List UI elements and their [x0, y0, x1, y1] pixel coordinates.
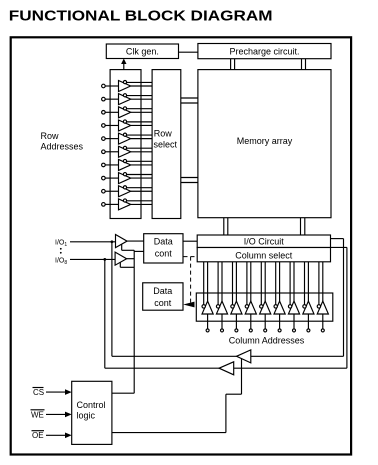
svg-text:FUNCTIONAL BLOCK DIAGRAM: FUNCTIONAL BLOCK DIAGRAM — [9, 8, 273, 25]
wire data path W1 horizontal — [112, 355, 344, 357]
svg-text:Row: Row — [41, 131, 60, 141]
wire row buffer 1 complement output — [125, 81, 152, 83]
svg-text:Data: Data — [154, 237, 173, 247]
wire column buffer 6 true output — [279, 262, 281, 301]
wire column address input 6 — [279, 314, 281, 329]
wire row address input 3 — [105, 111, 118, 113]
wire I/O8 to input buffer — [70, 258, 115, 260]
column address buffer 8 — [303, 301, 314, 314]
row address buffer 9 — [119, 186, 131, 197]
row address input terminal 1 — [102, 84, 106, 88]
arrow OE into control logic — [46, 433, 72, 439]
wire I/O1 to input buffer — [70, 241, 116, 243]
wire column buffer 3 complement output — [232, 262, 234, 305]
row address input terminal 4 — [102, 124, 106, 128]
wire buffer B output jog to data cont — [127, 251, 144, 258]
wire column buffer 1 true output — [207, 262, 209, 301]
row address buffer 6 — [119, 146, 131, 157]
arrow into data cont lower — [183, 302, 194, 308]
memory array box — [198, 70, 331, 218]
wire output bus vertical to I/O1 — [111, 242, 113, 356]
row address input terminal 8 — [102, 176, 106, 180]
output buffer T1 — [237, 350, 251, 363]
svg-text:cont: cont — [155, 248, 173, 258]
svg-text:Row: Row — [154, 129, 173, 139]
svg-text:I/O8: I/O8 — [55, 257, 67, 266]
wire row buffer 10 complement output — [125, 200, 152, 202]
arrow buffer box to clk gen — [121, 59, 126, 70]
pin OE label — [32, 431, 45, 441]
clock generator box — [106, 44, 178, 59]
wire column buffer 3 true output — [235, 262, 237, 301]
column address buffer 2 — [216, 301, 227, 314]
wire row buffer 7 complement output — [125, 160, 152, 162]
wire column address input 8 — [307, 314, 309, 329]
wire W1 right vertical — [343, 239, 345, 357]
svg-text:I/O Circuit: I/O Circuit — [244, 236, 285, 246]
wire row buffer 4 complement output — [125, 121, 152, 123]
wire buffer A to data cont — [127, 240, 144, 242]
wire row buffer 9 complement output — [125, 187, 152, 189]
wire row buffer 6 true output — [131, 151, 152, 153]
column address buffer 9 — [317, 301, 328, 314]
wire column address input 1 — [207, 314, 209, 329]
wire column buffer 9 true output — [322, 262, 324, 301]
svg-text:OE: OE — [32, 431, 44, 440]
wire row address input 4 — [105, 124, 118, 126]
wire column buffer 2 complement output — [217, 262, 219, 305]
svg-text:Memory array: Memory array — [237, 136, 293, 146]
column select box — [197, 248, 330, 262]
wire row buffer 1 true output — [131, 85, 152, 87]
ellipsis dots between I/O pins — [60, 248, 62, 254]
wire row address input 2 — [105, 98, 118, 100]
column address input terminal 6 — [278, 329, 281, 332]
row select box — [152, 70, 181, 219]
wire data cont to I/O circuit — [183, 240, 197, 242]
wire column buffer 8 complement output — [304, 262, 306, 305]
svg-text:Column select: Column select — [235, 250, 293, 260]
input buffer B (I/O8) — [115, 252, 127, 265]
svg-text:Clk gen.: Clk gen. — [126, 46, 159, 56]
column address buffer 6 — [274, 301, 285, 314]
wire column address input 9 — [322, 314, 324, 329]
row address input terminal 3 — [102, 111, 106, 115]
data cont box lower — [143, 283, 183, 310]
row address input terminal 6 — [102, 150, 106, 154]
wire column buffer 7 true output — [293, 262, 295, 301]
wire row buffer 2 complement output — [125, 95, 152, 97]
wire row address input 5 — [105, 138, 118, 140]
wire row buffer 9 true output — [131, 190, 152, 192]
wire row address input 10 — [105, 203, 118, 205]
pin CS label — [33, 388, 45, 398]
wire data path W2 horizontal — [105, 367, 347, 369]
wire column address input 7 — [293, 314, 295, 329]
wire row buffer 10 true output — [131, 203, 152, 205]
wire row select to memory upper stub — [181, 98, 198, 103]
row address input terminal 9 — [102, 189, 106, 193]
output buffer T2 — [219, 362, 234, 375]
wire W2 right vertical — [346, 247, 348, 368]
wire row buffer 2 true output — [131, 98, 152, 100]
wire column buffer 1 complement output — [203, 262, 205, 305]
wire row buffer 3 complement output — [125, 108, 152, 110]
wire row buffer 8 true output — [131, 177, 152, 179]
row address buffer 5 — [119, 133, 131, 144]
svg-text:WE: WE — [31, 410, 44, 419]
column address input terminal 2 — [221, 329, 224, 332]
row address buffer box — [110, 70, 141, 219]
data cont box upper — [144, 234, 183, 263]
wire row buffer 7 true output — [131, 164, 152, 166]
wire row buffer 5 complement output — [125, 134, 152, 136]
column address input terminal 8 — [307, 329, 310, 332]
wire buffer B enable — [120, 262, 134, 267]
svg-text:select: select — [154, 139, 178, 149]
wire control bus vertical (to control logic) — [133, 250, 135, 393]
column address buffer 4 — [245, 301, 256, 314]
svg-text:Control: Control — [77, 400, 106, 410]
svg-text:Precharge circuit.: Precharge circuit. — [229, 47, 299, 57]
wire column address input 3 — [235, 314, 237, 329]
column address buffer 5 — [260, 301, 271, 314]
column address input terminal 3 — [235, 329, 238, 332]
wire row buffer 4 true output — [131, 124, 152, 126]
wire CS path — [112, 392, 134, 394]
column address input terminal 9 — [321, 329, 324, 332]
junction node I/O8 — [103, 258, 106, 261]
wire column buffer 8 true output — [307, 262, 309, 301]
wire precharge to memory right stub — [302, 59, 306, 70]
wire column buffer 4 true output — [250, 262, 252, 301]
wire row buffer 8 complement output — [125, 173, 152, 175]
row address buffer 1 — [119, 81, 131, 92]
wire precharge to memory left stub — [231, 59, 235, 70]
wire column buffer 4 complement output — [246, 262, 248, 305]
wire output bus vertical to I/O8 — [104, 259, 106, 368]
I/O circuit box — [197, 235, 330, 248]
wire row address input 6 — [105, 151, 118, 153]
wire row address input 1 — [105, 85, 118, 87]
wire column address input 4 — [250, 314, 252, 329]
wire column buffer 5 complement output — [260, 262, 262, 305]
arrow CS into control logic — [46, 389, 72, 395]
wire column address input 2 — [221, 314, 223, 329]
column address input terminal 4 — [249, 329, 252, 332]
wire row buffer 3 true output — [131, 111, 152, 113]
wire memory to I/O circuit left stub — [224, 218, 228, 235]
column address input terminal 5 — [264, 329, 267, 332]
wire clk gen to precharge — [179, 51, 198, 53]
row address buffer 3 — [119, 107, 131, 118]
svg-text:Data: Data — [153, 286, 172, 296]
wire row address input 8 — [105, 177, 118, 179]
control logic box — [72, 381, 112, 444]
wire row address input 9 — [105, 190, 118, 192]
precharge circuit box — [198, 44, 331, 59]
arrow WE into control logic — [46, 412, 72, 418]
column buffer box — [196, 293, 332, 321]
wire W2 to I/O circuit — [331, 246, 347, 248]
column address buffer 7 — [288, 301, 299, 314]
wire memory to I/O circuit right stub — [301, 218, 305, 235]
svg-text:I/O1: I/O1 — [55, 240, 67, 249]
wire column address input 5 — [264, 314, 266, 329]
wire column buffer 5 true output — [264, 262, 266, 301]
column address input terminal 7 — [293, 329, 296, 332]
column address input terminal 1 — [206, 329, 209, 332]
row address input terminal 5 — [102, 137, 106, 141]
wire W1 to I/O circuit — [331, 238, 344, 240]
wire row select to memory lower stub — [181, 178, 198, 183]
row address buffer 4 — [119, 120, 131, 131]
label Row Addresses — [41, 131, 84, 152]
pin WE label — [31, 410, 45, 420]
wire row buffer 5 true output — [131, 138, 152, 140]
wire OE enable path — [112, 359, 242, 433]
wire column buffer 2 true output — [221, 262, 223, 301]
svg-text:cont: cont — [154, 298, 172, 308]
column address buffer 3 — [231, 301, 242, 314]
column address buffer 1 — [202, 301, 213, 314]
row address input terminal 2 — [102, 97, 106, 101]
row address buffer 2 — [119, 94, 131, 105]
wire row buffer 6 complement output — [125, 147, 152, 149]
row address buffer 8 — [119, 173, 131, 184]
junction node I/O1 — [111, 240, 114, 243]
input buffer A (I/O1) — [116, 235, 128, 248]
svg-text:Addresses: Addresses — [41, 142, 84, 152]
row address input terminal 7 — [102, 163, 106, 167]
row address input terminal 10 — [102, 203, 106, 207]
svg-text:logic: logic — [77, 411, 96, 421]
row address buffer 7 — [119, 159, 131, 170]
wire column buffer 6 complement output — [275, 262, 277, 305]
dashed wire column select to data cont — [184, 257, 198, 303]
svg-text:Column Addresses: Column Addresses — [229, 336, 305, 346]
row address buffer 10 — [119, 199, 131, 210]
wire buffer A enable — [122, 245, 135, 251]
wire column buffer 9 complement output — [318, 262, 320, 305]
wire column buffer 7 complement output — [289, 262, 291, 305]
svg-text:CS: CS — [33, 388, 44, 397]
wire row address input 7 — [105, 164, 118, 166]
